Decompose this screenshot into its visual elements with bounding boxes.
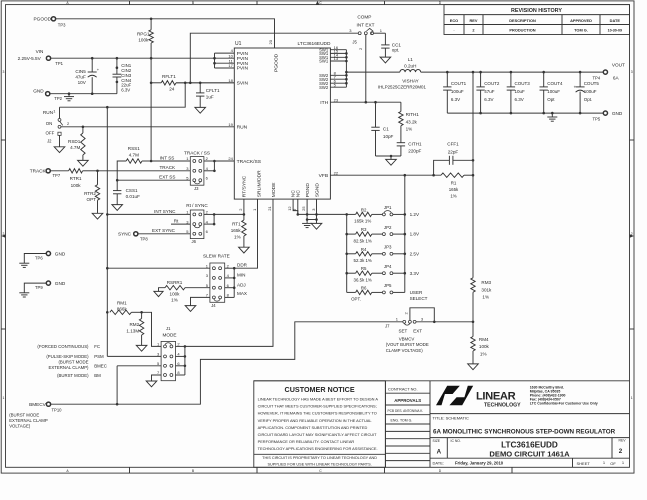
svg-text:VOUT: VOUT	[612, 62, 625, 67]
svg-text:FC: FC	[94, 344, 100, 349]
svg-text:47uF: 47uF	[484, 89, 495, 94]
svg-text:1.13M: 1.13M	[126, 328, 139, 333]
wire PGOOD net	[56, 18, 275, 49]
svg-text:100k: 100k	[71, 183, 82, 188]
wire VOUT feedback tap vertical	[472, 72, 475, 278]
svg-text:(BURST MODE: (BURST MODE	[9, 413, 39, 418]
svg-text:TRACK: TRACK	[160, 165, 177, 170]
svg-text:VFB: VFB	[319, 173, 329, 179]
svg-text:12: 12	[287, 206, 292, 211]
U1 pin numbers	[228, 39, 338, 211]
capacitor CFF1 22pF	[434, 142, 473, 176]
svg-text:LINEAR: LINEAR	[476, 391, 516, 403]
svg-text:(PULSE-SKIP MODE): (PULSE-SKIP MODE)	[46, 354, 89, 359]
resistor RTR2 OPT	[84, 171, 100, 214]
svg-text:1%: 1%	[234, 235, 241, 240]
capacitor CFLT1 1uF	[196, 83, 220, 108]
svg-text:JP2: JP2	[384, 225, 392, 230]
svg-text:36.5k 1%: 36.5k 1%	[354, 278, 372, 283]
svg-text:23: 23	[334, 97, 339, 102]
svg-text:EXTERNAL CLAMP): EXTERNAL CLAMP)	[49, 365, 90, 370]
capacitor COUT5 100uF Opt.	[574, 72, 600, 113]
wire output ground rail	[447, 112, 603, 117]
svg-text:CSS1: CSS1	[126, 188, 138, 193]
svg-text:TP2: TP2	[54, 96, 62, 101]
U1 bottom pin names	[242, 170, 321, 197]
svg-text:SELECT: SELECT	[410, 296, 428, 301]
svg-text:opt.: opt.	[392, 48, 400, 53]
svg-text:TRACK: TRACK	[30, 169, 47, 174]
test point TP6 GND	[24, 251, 66, 263]
wire VFB net	[330, 174, 441, 177]
jumper J1 MODE	[157, 326, 180, 380]
svg-text:TP5: TP5	[593, 117, 601, 122]
wire J1 right tie pins 2-4-6-8	[176, 345, 187, 375]
svg-text:Opt.: Opt.	[584, 97, 593, 102]
svg-text:3.3V: 3.3V	[410, 271, 420, 276]
svg-text:JP5: JP5	[384, 283, 392, 288]
wire J4 pin 7 to ground	[191, 297, 210, 305]
svg-text:TP8: TP8	[140, 237, 148, 242]
svg-text:6A: 6A	[613, 75, 620, 80]
ground RSRR1	[154, 291, 163, 296]
svg-text:LTC Confidential-For Customer: LTC Confidential-For Customer Use Only	[530, 402, 598, 406]
svg-text:A: A	[437, 449, 442, 456]
svg-text:OPT: OPT	[87, 197, 97, 202]
node label VBMCV	[386, 337, 429, 353]
wire SGND to feedback divider	[298, 213, 347, 215]
svg-text:ENG. TOM G.: ENG. TOM G.	[391, 418, 413, 422]
resistor RSRR1 100k 1%	[159, 280, 210, 303]
size / ic no / rev row	[430, 438, 630, 459]
svg-text:RPG1: RPG1	[137, 32, 150, 37]
svg-text:Opt: Opt	[547, 97, 555, 102]
svg-text:25: 25	[301, 206, 306, 211]
wire input ground rail	[50, 92, 117, 95]
svg-text:U1: U1	[235, 41, 242, 47]
svg-text:LINEAR TECHNOLOGY HAS MADE A B: LINEAR TECHNOLOGY HAS MADE A BEST EFFORT…	[258, 397, 379, 402]
svg-text:COUT2: COUT2	[484, 81, 500, 86]
svg-text:GND: GND	[612, 111, 623, 116]
wire EXT SYNC	[138, 228, 190, 234]
wire VOUT rail	[421, 71, 604, 74]
U1 top pin name PGOOD	[274, 53, 280, 72]
test point TP2 GND	[33, 88, 62, 101]
svg-text:+: +	[574, 84, 577, 89]
title block header / logo row	[254, 381, 630, 414]
svg-text:APPROVALS: APPROVALS	[394, 398, 421, 403]
IC U1 LTC3616EUDD body	[234, 41, 331, 199]
svg-text:L1: L1	[408, 57, 414, 62]
U1 left pin names	[237, 51, 262, 165]
svg-text:(BURST MODE: (BURST MODE	[58, 360, 88, 365]
wire EXT SS to J3 pin 5	[116, 175, 190, 182]
svg-text:TP7: TP7	[53, 173, 61, 178]
wire VIN bus drop to SVIN filter	[150, 58, 153, 84]
resistor RSD1 4.7M	[68, 127, 85, 161]
svg-text:CLAMP VOLTAGE): CLAMP VOLTAGE)	[386, 348, 424, 353]
svg-text:1%: 1%	[480, 352, 487, 357]
svg-text:1: 1	[2, 396, 4, 400]
svg-text:82.5k 1%: 82.5k 1%	[354, 238, 372, 243]
wire PVIN pins bracket	[213, 53, 234, 68]
svg-text:CIN5: CIN5	[75, 69, 86, 74]
wire SVIN node	[176, 82, 234, 85]
svg-text:1%: 1%	[171, 298, 178, 303]
svg-text:GND: GND	[55, 281, 66, 286]
svg-text:R5: R5	[361, 266, 367, 271]
ground J1 pin 7	[146, 381, 157, 387]
svg-text:SW2: SW2	[319, 85, 329, 90]
wire INT SS to J3 pin 1	[151, 155, 190, 161]
svg-text:EXT: EXT	[413, 328, 422, 333]
svg-text:PGOOD: PGOOD	[34, 17, 52, 22]
ground J4 pin 7	[185, 306, 196, 312]
title row	[430, 416, 630, 438]
mode select labels	[37, 344, 106, 378]
svg-text:2: 2	[619, 448, 623, 455]
svg-text:VIN: VIN	[36, 49, 44, 54]
wire J7 pin 2 loop	[404, 308, 435, 322]
ground RSD1	[78, 160, 89, 166]
svg-text:BM: BM	[94, 373, 101, 378]
svg-text:CITH1: CITH1	[408, 142, 422, 147]
svg-text:REV: REV	[619, 439, 627, 443]
svg-text:21: 21	[267, 206, 272, 211]
svg-text:4.7M: 4.7M	[129, 152, 139, 157]
jumper J3 TRACK/SS	[184, 150, 210, 190]
resistor RITH1 43.2k 1%	[399, 102, 420, 143]
svg-text:C1: C1	[383, 127, 389, 132]
svg-text:COUT1: COUT1	[451, 81, 467, 86]
svg-text:(VOUT BURST MODE: (VOUT BURST MODE	[386, 342, 429, 347]
svg-text:IC NO.: IC NO.	[451, 439, 461, 443]
resistor RFLT1 24	[151, 74, 176, 91]
svg-text:R3: R3	[361, 227, 367, 232]
wire BMEC to J1 pin 5	[117, 366, 161, 404]
svg-text:NC: NC	[296, 190, 302, 198]
svg-text:RTR2: RTR2	[84, 191, 96, 196]
svg-text:10V: 10V	[78, 80, 87, 85]
svg-text:1.8V: 1.8V	[410, 232, 420, 237]
svg-text:43.2k: 43.2k	[406, 119, 418, 124]
svg-text:JP4: JP4	[384, 264, 392, 269]
svg-text:CFLT1: CFLT1	[206, 88, 220, 93]
wire RT/SYNC pin 2 stub	[243, 199, 245, 214]
ground output rail earth symbol	[547, 117, 557, 121]
svg-text:MIN: MIN	[237, 273, 245, 278]
resistor R3 82.5k 1%	[347, 227, 383, 243]
test point TP3 PGOOD	[34, 17, 67, 28]
test point TP7 TRACK	[30, 169, 61, 179]
svg-text:24: 24	[169, 86, 175, 91]
capacitor COUT4 100uF Opt	[540, 72, 564, 113]
wire J4 right tie pins 2-4-6-8	[225, 263, 248, 298]
resistor R6 OPT.	[347, 285, 383, 301]
test point TP8 SYNC	[118, 232, 148, 242]
svg-text:CUSTOMER NOTICE: CUSTOMER NOTICE	[285, 385, 355, 394]
wire VIN rail	[51, 57, 216, 60]
ground compensation	[386, 159, 397, 165]
svg-text:(FORCED CONTINUOUS): (FORCED CONTINUOUS)	[37, 344, 89, 349]
ground RM4	[468, 364, 479, 370]
svg-text:19: 19	[228, 122, 233, 127]
svg-text:DATE:: DATE:	[433, 461, 444, 466]
node label 3.3V	[410, 271, 420, 276]
svg-text:RM1: RM1	[117, 300, 127, 305]
date / sheet row	[433, 458, 625, 467]
svg-text:COMP: COMP	[357, 15, 371, 20]
test point TP10 BMECV	[9, 402, 62, 429]
svg-text:1: 1	[631, 396, 633, 400]
svg-text:SET: SET	[399, 328, 408, 333]
svg-text:RT1: RT1	[232, 222, 241, 227]
svg-text:DEMO CIRCUIT 1461A: DEMO CIRCUIT 1461A	[489, 450, 570, 459]
svg-text:LTC3616EUDD: LTC3616EUDD	[501, 441, 558, 450]
wire J5 pin 1 to CC1	[374, 28, 386, 45]
wire BMECV net to J7 pin 1	[51, 322, 403, 406]
svg-text:SVIN: SVIN	[237, 81, 249, 87]
svg-text:3: 3	[2, 70, 4, 74]
svg-text:RM3: RM3	[481, 280, 491, 285]
resistor RTR1 100k	[50, 169, 97, 188]
svg-text:COUT3: COUT3	[515, 81, 531, 86]
svg-text:APPROVED: APPROVED	[570, 18, 592, 23]
svg-text:SRLIM/DDR: SRLIM/DDR	[256, 170, 262, 197]
jumper JP3	[382, 245, 404, 256]
svg-text:PCB DES. ANTONINA K.: PCB DES. ANTONINA K.	[388, 409, 424, 413]
wire ITH net	[330, 101, 401, 104]
svg-text:RTR1: RTR1	[70, 176, 82, 181]
ground CSS1	[112, 205, 123, 211]
svg-text:IHLP2525CZERR20M01: IHLP2525CZERR20M01	[378, 85, 427, 90]
svg-text:PVIN: PVIN	[237, 66, 249, 72]
Linear Technology logo	[436, 386, 521, 409]
svg-text:1%: 1%	[406, 127, 413, 132]
svg-text:RM2: RM2	[129, 322, 139, 327]
svg-text:CIRCUIT THAT MEETS CUSTOMER-SU: CIRCUIT THAT MEETS CUSTOMER-SUPPLIED SPE…	[258, 404, 377, 409]
svg-text:RT/SYNC: RT/SYNC	[242, 175, 248, 197]
svg-text:PERFORMANCE OR RELIABILITY. C: PERFORMANCE OR RELIABILITY. CONTACT LINE…	[258, 439, 355, 444]
svg-text:J5: J5	[352, 39, 357, 44]
wire SW1 pins bracket	[330, 50, 347, 87]
svg-text:17: 17	[228, 63, 233, 68]
svg-text:1uF: 1uF	[206, 94, 214, 99]
svg-text:OFF: OFF	[46, 130, 55, 135]
capacitor COUT2 47uF 6.3V	[476, 72, 500, 113]
svg-text:OPT.: OPT.	[351, 297, 361, 302]
capacitor CSS1 0.01uF	[113, 180, 140, 204]
wire J6 pins 2-4 tie to RT/SYNC pin	[204, 213, 245, 225]
svg-text:SLEW RATE: SLEW RATE	[203, 253, 230, 258]
ground RT1	[239, 247, 250, 253]
svg-text:Rt: Rt	[174, 219, 179, 224]
svg-text:RSD1: RSD1	[68, 139, 81, 144]
capacitor COUT1 100uF 6.3V	[443, 72, 467, 113]
svg-text:47uF: 47uF	[75, 75, 86, 80]
node label 2.5V	[410, 251, 420, 256]
svg-text:100uF: 100uF	[547, 89, 560, 94]
svg-text:165k: 165k	[231, 228, 242, 233]
svg-text:4.7M: 4.7M	[70, 145, 80, 150]
svg-text:100uF: 100uF	[584, 89, 597, 94]
svg-text:COUT4: COUT4	[547, 81, 563, 86]
jumper J6 Rt/SYNC	[186, 203, 208, 244]
wire divider left bus	[345, 213, 348, 292]
capacitor COUT3 10uF 6.3V	[507, 72, 531, 113]
svg-text:GND: GND	[33, 88, 44, 93]
wire PSM to J1 pin 3	[107, 355, 161, 357]
resistor RPG1 100k	[137, 19, 153, 58]
wire VIN bus to INT SS	[150, 83, 153, 163]
wire PGND SGND stubs	[306, 199, 318, 221]
svg-text:R6: R6	[361, 285, 367, 290]
jumper J5 COMP INT/EXT	[352, 15, 374, 50]
node label 1.8V	[410, 232, 420, 237]
svg-text:JP3: JP3	[384, 245, 392, 250]
svg-text:PSM: PSM	[94, 354, 104, 359]
svg-text:3: 3	[631, 70, 633, 74]
svg-text:165k: 165k	[449, 187, 459, 192]
svg-text:220pF: 220pF	[408, 149, 421, 154]
ground RTR2	[92, 213, 103, 219]
svg-text:6.3V: 6.3V	[121, 87, 130, 92]
svg-text:SHEET: SHEET	[577, 461, 591, 466]
jumper JP5	[382, 283, 404, 294]
svg-text:RSS1: RSS1	[128, 146, 140, 151]
svg-text:6.3V: 6.3V	[515, 97, 524, 102]
svg-text:22: 22	[334, 170, 339, 175]
resistor R4 52.3k 1%	[347, 247, 383, 263]
wire SVIN pin stub	[176, 82, 234, 84]
inductor L1 0.2uH	[346, 57, 426, 89]
wire J3 pins 2-4 tie to TRACK/SS pin 24	[204, 160, 234, 172]
svg-text:SIZE: SIZE	[433, 439, 441, 443]
node label USER SELECT	[410, 290, 428, 301]
jumper J4 SLEW RATE	[203, 253, 230, 308]
svg-text:J4: J4	[211, 303, 216, 308]
jumper JP4	[382, 264, 404, 275]
ground RM2	[136, 345, 147, 351]
svg-text:VOLTAGE): VOLTAGE)	[9, 424, 31, 429]
svg-text:INT EXT: INT EXT	[357, 23, 375, 28]
ground CC1	[380, 57, 391, 63]
svg-text:SW1: SW1	[319, 59, 329, 64]
approvals column	[385, 381, 430, 468]
svg-text:0.2uH: 0.2uH	[404, 63, 416, 68]
svg-text:APPLICATION. COMPONENT SUBSTIT: APPLICATION. COMPONENT SUBSTITUTION AND …	[258, 425, 368, 430]
svg-text:TECHNOLOGY: TECHNOLOGY	[484, 403, 521, 409]
resistor R5 36.5k 1%	[347, 266, 383, 282]
wire RUN net pin 19	[61, 121, 234, 128]
svg-text:VERIFY PROPER AND RELIABLE OPE: VERIFY PROPER AND RELIABLE OPERATION IN …	[258, 418, 373, 423]
svg-text:Friday, January 29, 2010: Friday, January 29, 2010	[455, 461, 504, 466]
svg-text:TECHNOLOGY APPLICATIONS ENGINE: TECHNOLOGY APPLICATIONS ENGINEERING FOR …	[258, 446, 378, 451]
svg-text:REVISION HISTORY: REVISION HISTORY	[511, 8, 562, 14]
resistor RSS1 4.7M	[117, 146, 151, 180]
node label 1.2V	[410, 212, 420, 217]
svg-text:VISHAY: VISHAY	[402, 79, 419, 84]
svg-text:EXT SYNC: EXT SYNC	[152, 228, 176, 233]
svg-text:PVIN: PVIN	[237, 51, 249, 57]
test point TP5 GND	[593, 111, 623, 122]
svg-text:SYNC: SYNC	[118, 232, 132, 237]
svg-text:R4: R4	[361, 247, 367, 252]
wire J7 pin 3 to divider	[416, 321, 474, 324]
ground TP9 earth symbol	[19, 293, 29, 297]
resistor R2 165k 1%	[347, 207, 383, 223]
wire NC pins stub	[293, 199, 299, 216]
svg-text:10pF: 10pF	[383, 134, 394, 139]
ground TP6 earth symbol	[19, 263, 29, 267]
svg-text:EXTERNAL CLAMP: EXTERNAL CLAMP	[9, 418, 48, 423]
svg-text:MODE: MODE	[162, 333, 176, 338]
svg-text:THIS CIRCUIT IS PROPRIETARY TO: THIS CIRCUIT IS PROPRIETARY TO LINEAR TE…	[262, 456, 377, 460]
resistor RM2 1.13M	[126, 312, 143, 345]
svg-text:CIRCUIT BOARD LAYOUT MAY SIGNI: CIRCUIT BOARD LAYOUT MAY SIGNIFICANTLY A…	[258, 432, 378, 437]
svg-text:1%: 1%	[482, 295, 489, 300]
svg-text:(BURST MODE): (BURST MODE)	[57, 373, 89, 378]
wire SVIN to RUN switch	[60, 83, 186, 119]
wire SVIN sense bus vertical	[106, 107, 109, 356]
wire J1 pin 7 to ground	[152, 375, 162, 381]
svg-text:R1: R1	[451, 180, 457, 185]
svg-text:R2: R2	[361, 207, 367, 212]
svg-text:JP1: JP1	[384, 205, 392, 210]
svg-text:DATE: DATE	[610, 18, 621, 23]
svg-text:22pF: 22pF	[448, 149, 459, 154]
svg-text:BMEC: BMEC	[94, 363, 107, 368]
resistor RM4 100k 1%	[471, 322, 490, 364]
svg-text:CFF1: CFF1	[447, 142, 459, 147]
svg-text:TP10: TP10	[52, 408, 63, 413]
svg-text:HOWEVER, IT REMAINS THE CUSTOM: HOWEVER, IT REMAINS THE CUSTOMER'S RESPO…	[258, 411, 377, 416]
svg-text:DDR: DDR	[237, 263, 248, 268]
svg-text:J6: J6	[192, 239, 197, 244]
svg-text:INT SYNC: INT SYNC	[154, 209, 176, 214]
wire J4 pin 1 to bus	[106, 267, 210, 270]
switch J2 RUN ON/OFF	[43, 109, 63, 147]
svg-text:10uF: 10uF	[515, 89, 526, 94]
svg-text:VBMCV: VBMCV	[399, 337, 415, 342]
svg-text:USER: USER	[410, 290, 423, 295]
svg-text:MODE: MODE	[271, 182, 277, 197]
svg-text:ON: ON	[46, 121, 53, 126]
jumper JP1	[382, 205, 404, 216]
svg-text:2.25V-5.5V: 2.25V-5.5V	[18, 56, 42, 61]
svg-text:SUPPLIED FOR USE WITH LINEAR T: SUPPLIED FOR USE WITH LINEAR TECHNOLOGY …	[268, 462, 372, 466]
svg-text:INT SS: INT SS	[160, 155, 175, 160]
svg-text:RUN: RUN	[237, 125, 248, 131]
svg-text:J7: J7	[385, 323, 390, 328]
svg-text:20: 20	[268, 39, 273, 44]
svg-text:ITH: ITH	[320, 100, 328, 106]
svg-text:TP9: TP9	[35, 285, 43, 290]
svg-text:GND: GND	[55, 251, 66, 256]
ground SGND	[311, 220, 322, 230]
svg-text:165k 1%: 165k 1%	[354, 219, 371, 224]
resistor RT1 165k 1%	[231, 214, 246, 247]
svg-text:ADJ: ADJ	[237, 282, 246, 287]
wire INT SYNC	[106, 209, 190, 216]
wire J5 pin 2 to ITH	[365, 35, 367, 103]
svg-text:1.2V: 1.2V	[410, 212, 420, 217]
svg-text:J1: J1	[166, 326, 171, 331]
svg-text:TRACK/SS: TRACK/SS	[237, 159, 262, 165]
svg-text:866k: 866k	[117, 306, 128, 311]
svg-text:6.3V: 6.3V	[451, 97, 460, 102]
sheet center arrows	[1, 1, 634, 238]
